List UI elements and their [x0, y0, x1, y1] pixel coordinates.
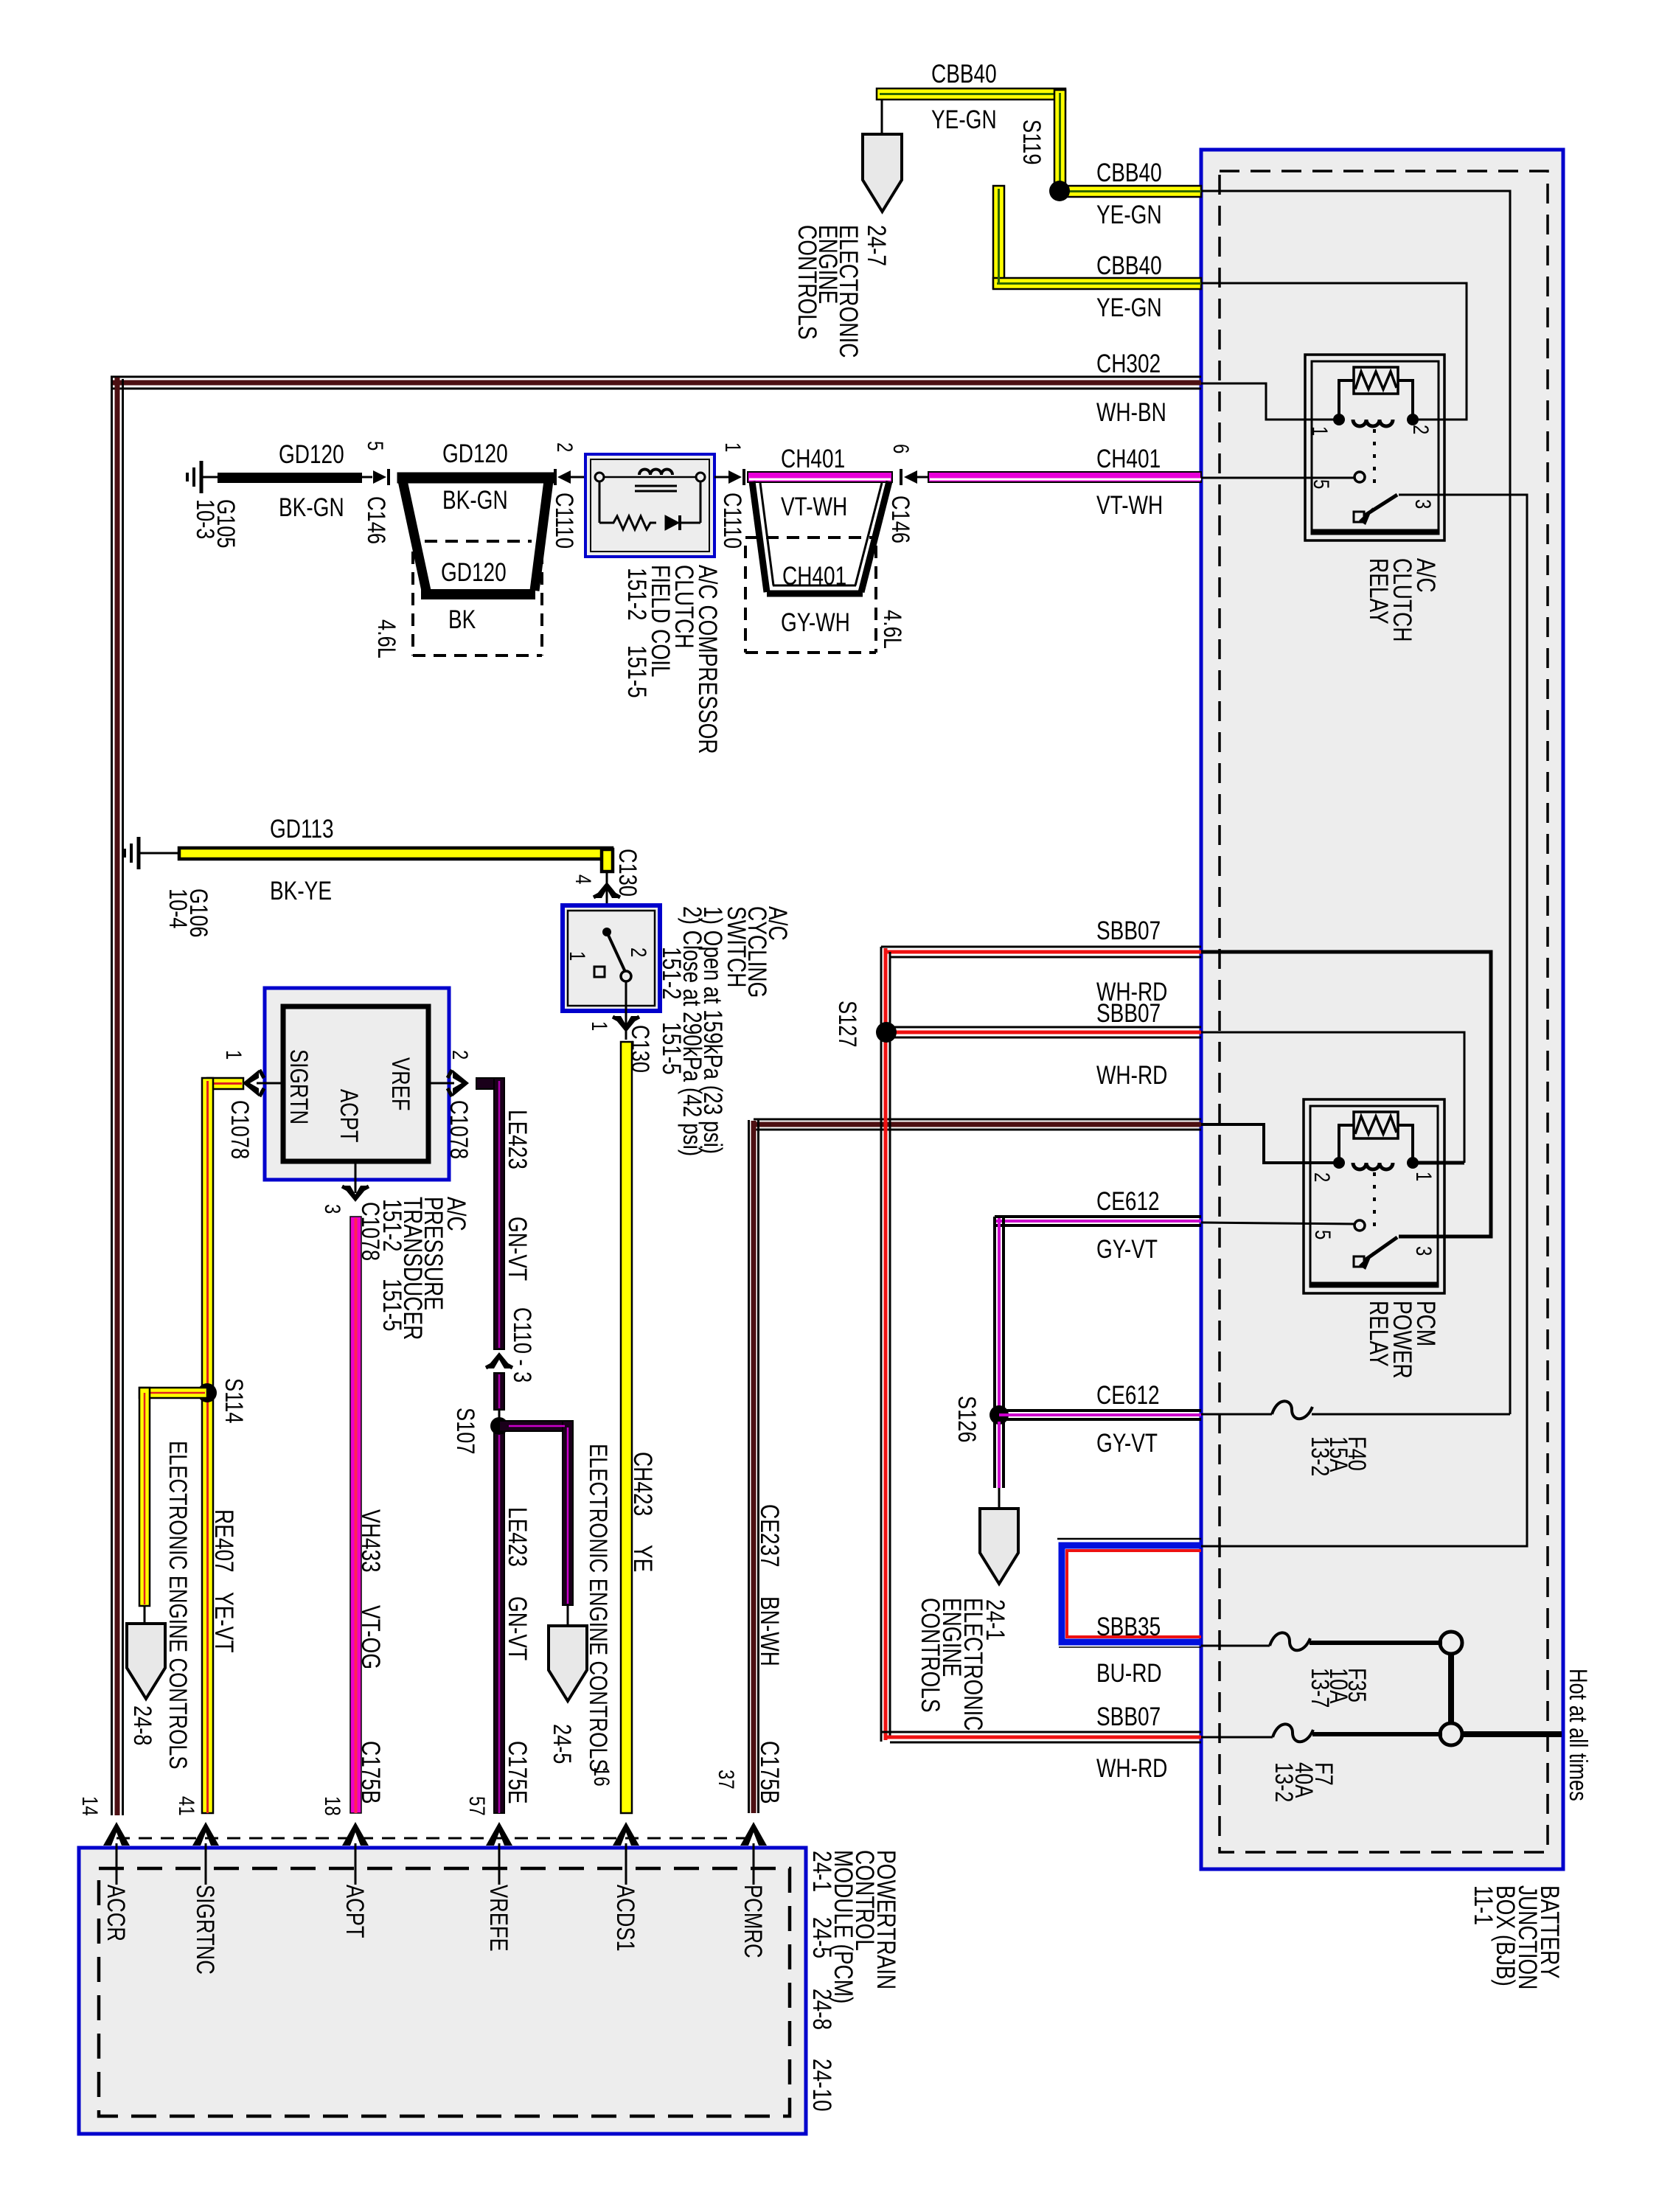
wire VH433 VT-OG vertical — [350, 1217, 361, 1813]
svg-text:CH401: CH401 — [1096, 444, 1161, 473]
transducer pin 1 lead — [257, 1082, 283, 1085]
PCM pin 14 arrow — [103, 1822, 130, 1885]
svg-text:CONTROLS: CONTROLS — [916, 1598, 945, 1713]
svg-text:C110 - 3: C110 - 3 — [508, 1307, 537, 1382]
svg-text:151-2: 151-2 — [378, 1199, 407, 1252]
wire SBB07 WH-RD second (S127 to BJB) — [886, 1027, 1201, 1037]
connector C1110 pin 2 arrow — [555, 469, 585, 485]
svg-text:5: 5 — [1310, 1230, 1335, 1239]
A/C relay actuator dotted line — [1373, 429, 1376, 487]
svg-text:24-7: 24-7 — [862, 225, 891, 266]
svg-text:BK-GN: BK-GN — [442, 485, 508, 515]
battery junction box (BJB) outline — [1201, 150, 1563, 1869]
svg-text:ACPT: ACPT — [341, 1885, 369, 1938]
fuse F40 15A — [1272, 1401, 1312, 1419]
BJB internal line: CE237 step to PCM relay pin 2 — [1201, 1124, 1339, 1163]
svg-text:CBB40: CBB40 — [1096, 251, 1162, 280]
svg-text:CE237: CE237 — [755, 1504, 785, 1568]
svg-text:SBB07: SBB07 — [1096, 998, 1161, 1028]
svg-text:3: 3 — [320, 1204, 345, 1214]
svg-text:VH433: VH433 — [356, 1509, 386, 1573]
splice S127 — [876, 1022, 897, 1043]
svg-text:2: 2 — [448, 1050, 473, 1060]
svg-text:24-1: 24-1 — [807, 1851, 837, 1892]
transducer pin 2 lead — [428, 1082, 454, 1085]
svg-text:WH-RD: WH-RD — [1096, 1753, 1167, 1783]
lead from switch to C130 pin 1 — [625, 981, 627, 1040]
svg-text:24-10: 24-10 — [807, 2059, 837, 2112]
BJB internal line: CE612 lower to F40 — [1201, 1413, 1272, 1416]
wire CE612 GY-VT lower (S126 to BJB / F40) — [999, 1411, 1201, 1419]
svg-text:C130: C130 — [613, 849, 642, 897]
svg-text:CE612: CE612 — [1096, 1380, 1160, 1410]
F7 to terminal — [1312, 1732, 1442, 1736]
svg-text:GY-WH: GY-WH — [781, 608, 850, 637]
field coil internals — [595, 470, 705, 531]
svg-text:24-5: 24-5 — [548, 1724, 577, 1764]
svg-text:SBB07: SBB07 — [1096, 1702, 1161, 1731]
svg-text:C175B: C175B — [356, 1741, 386, 1804]
wire CE237 BN-WH horizontal — [754, 1119, 1201, 1130]
BJB internal line: CH302 to A/C relay pin 1 — [1201, 383, 1339, 420]
svg-text:BK-YE: BK-YE — [270, 876, 332, 905]
svg-text:YE-GN: YE-GN — [1096, 200, 1162, 229]
PCM relay pin 2 junction — [1333, 1157, 1345, 1169]
connector C130 pin 4 arrow (up) — [594, 882, 620, 898]
A/C relay switch arm — [1354, 512, 1364, 522]
svg-text:YE-GN: YE-GN — [931, 105, 997, 134]
svg-text:24-8: 24-8 — [807, 1989, 837, 2030]
PCM pin dashed connector line — [116, 1837, 754, 1840]
wire CH401 VT-WH to BJB — [928, 472, 1201, 482]
terminal circle (F35) — [1440, 1632, 1462, 1654]
svg-text:LE423: LE423 — [503, 1507, 532, 1567]
svg-text:VREF: VREF — [386, 1057, 415, 1110]
svg-text:151-5: 151-5 — [378, 1279, 407, 1332]
svg-text:GN-VT: GN-VT — [503, 1596, 532, 1660]
A/C relay pin 5 contact — [1354, 472, 1365, 482]
svg-text:10-3: 10-3 — [191, 499, 220, 539]
wire CBB40 vertical into S119 — [1054, 90, 1065, 191]
svg-text:VT-WH: VT-WH — [1096, 490, 1163, 520]
BJB internal line: SBB07 bottom to F7 — [1201, 1736, 1273, 1739]
svg-text:S107: S107 — [451, 1408, 480, 1454]
ground G106 — [125, 837, 181, 869]
svg-text:1: 1 — [1411, 1172, 1436, 1181]
connector C1078 pin 2 arrow (right) — [453, 1070, 469, 1096]
connector C110-3 arrow (up) on LE423 — [486, 1352, 512, 1368]
4.6L trapezoid splice (GD120 BK) thick — [397, 473, 554, 594]
BJB internal line: SBB07 second to PCM relay pin 1 — [1201, 1032, 1464, 1163]
wire SBB07 WH-RD bottom (to F7) — [881, 1732, 1201, 1742]
svg-text:151-2: 151-2 — [657, 947, 686, 1000]
svg-text:RELAY: RELAY — [1364, 558, 1394, 625]
BJB internal line: SBB35 to F35 — [1201, 1645, 1270, 1647]
svg-text:ELECTRONIC ENGINE CONTROLS: ELECTRONIC ENGINE CONTROLS — [584, 1444, 613, 1773]
svg-text:GD120: GD120 — [441, 557, 507, 587]
PCM relay switch arm — [1354, 1256, 1364, 1267]
svg-text:GD113: GD113 — [270, 814, 334, 844]
svg-text:ACCR: ACCR — [102, 1885, 131, 1941]
A/C cycling switch box — [563, 905, 660, 1011]
svg-text:C175B: C175B — [755, 1741, 785, 1804]
connector C146 pin 6 arrow — [901, 469, 928, 485]
switch fixed contact square — [594, 967, 605, 977]
connector C1110 pin 1 arrow — [714, 469, 744, 485]
fuse F35 10A — [1270, 1632, 1310, 1650]
fuse F7 40A — [1273, 1724, 1313, 1742]
svg-text:ACDS1: ACDS1 — [611, 1885, 640, 1952]
connector C1078 pin 3 arrow (down) — [342, 1186, 369, 1202]
dashed 4.6L box (left trapezoid) — [413, 541, 542, 655]
transducer pin 3 lead — [355, 1161, 357, 1193]
svg-text:SIGRTN: SIGRTN — [285, 1049, 313, 1124]
svg-text:4.6L: 4.6L — [878, 610, 907, 649]
svg-text:GY-VT: GY-VT — [1096, 1428, 1158, 1458]
svg-text:S119: S119 — [1018, 119, 1046, 164]
splice S119 — [1049, 181, 1070, 201]
connector C146 pin 5 arrow — [362, 469, 389, 485]
BJB internal line: CE612 to PCM relay pin 5 — [1201, 1222, 1354, 1224]
wire GD113 BK-YE corner down — [602, 849, 613, 872]
wire CH423 YE vertical — [621, 1042, 632, 1813]
svg-text:C1110: C1110 — [550, 493, 579, 549]
lead to A/C cycling switch pin 4 — [606, 873, 608, 907]
PCM pin 37 arrow — [740, 1822, 767, 1885]
svg-text:5: 5 — [363, 441, 388, 451]
switch contact (pin 4 side) — [602, 928, 611, 936]
wire SBB35 BU-RD u-turn — [1057, 1539, 1201, 1647]
svg-text:CH401: CH401 — [782, 561, 846, 591]
wire RE407 YE-VT from pin 1 — [202, 1078, 243, 1813]
svg-text:PCMRC: PCMRC — [739, 1885, 768, 1958]
svg-text:C1110: C1110 — [718, 493, 747, 549]
svg-text:GD120: GD120 — [279, 439, 344, 469]
svg-text:3: 3 — [1411, 1246, 1436, 1256]
svg-text:5: 5 — [1309, 479, 1334, 489]
svg-text:C175E: C175E — [503, 1741, 532, 1804]
off-page connector 24-5 (pentagon) — [549, 1626, 587, 1701]
svg-text:GN-VT: GN-VT — [503, 1217, 532, 1281]
battery feed jumper between terminals — [1448, 1654, 1454, 1724]
svg-text:YE: YE — [628, 1545, 658, 1572]
svg-text:C1078: C1078 — [226, 1100, 254, 1159]
svg-text:13-7: 13-7 — [1306, 1668, 1335, 1708]
BJB internal line: PCM relay pin 1 feed — [1413, 1161, 1464, 1165]
BJB inner dashed border — [1220, 171, 1548, 1852]
switch arm — [607, 932, 625, 972]
wire CH302 WH-BN horizontal from left corner to BJB — [111, 377, 1201, 389]
wire CBB40 loop from S119 down-left to BJB (lower) — [993, 186, 1201, 289]
svg-text:CBB40: CBB40 — [931, 59, 997, 88]
svg-text:18: 18 — [320, 1796, 345, 1816]
ground G105 — [187, 461, 219, 493]
wire CBB40 YE-GN segment from connector 24-7 to S119 (horizontal top) — [877, 88, 1065, 100]
BJB internal line: SBB07 upper to PCM relay pin 3 — [1201, 952, 1491, 1237]
svg-text:3: 3 — [1411, 499, 1436, 509]
PCM relay coil resistor — [1339, 1112, 1413, 1160]
wire SBB07 WH-RD upper (S127 corner to BJB) — [881, 947, 1201, 957]
PCM inner dashed border — [99, 1868, 790, 2116]
wire CH401 VT-WH over trapezoid — [748, 472, 892, 482]
svg-text:RE407: RE407 — [209, 1509, 239, 1573]
BJB internal line: F40 to CBB40 vertical — [1312, 1413, 1510, 1416]
connector C1078 pin 1 arrow (left) — [243, 1070, 259, 1096]
battery feed to Hot at all times — [1461, 1731, 1562, 1737]
svg-text:CBB40: CBB40 — [1096, 158, 1162, 187]
svg-text:1: 1 — [565, 951, 590, 961]
svg-text:SBB07: SBB07 — [1096, 916, 1161, 945]
A/C relay coil resistor — [1339, 367, 1413, 417]
wire S107 branch to 24-5 connector — [499, 1421, 573, 1605]
svg-text:1: 1 — [720, 442, 745, 452]
lead from CBB40 to 24-7 connector — [881, 100, 883, 134]
svg-text:2: 2 — [552, 442, 577, 452]
svg-text:ELECTRONIC ENGINE CONTROLS: ELECTRONIC ENGINE CONTROLS — [164, 1441, 192, 1770]
svg-text:1: 1 — [221, 1050, 246, 1060]
svg-text:2: 2 — [1408, 425, 1433, 434]
splice S126 — [990, 1405, 1009, 1425]
svg-text:YE-VT: YE-VT — [209, 1592, 239, 1652]
wire CE612 GY-VT upper (from relay pin 5 to corner) — [995, 1217, 1201, 1225]
wire LE423 short segment to S107 — [494, 1373, 504, 1410]
svg-text:VREFE: VREFE — [484, 1885, 513, 1952]
svg-text:RELAY: RELAY — [1364, 1301, 1394, 1367]
powertrain control module (PCM) outline — [79, 1848, 806, 2134]
svg-text:16: 16 — [589, 1767, 614, 1787]
terminal circle (F7) — [1440, 1723, 1462, 1745]
wire LE423 below S107 to PCM pin 57 — [494, 1433, 504, 1813]
A/C clutch relay box — [1305, 355, 1444, 540]
svg-text:CH401: CH401 — [781, 444, 845, 473]
svg-text:57: 57 — [465, 1796, 490, 1816]
svg-text:S126: S126 — [953, 1396, 981, 1442]
svg-text:Hot at all times: Hot at all times — [1564, 1669, 1593, 1801]
PCM relay actuator dotted line — [1373, 1172, 1376, 1230]
svg-text:C146: C146 — [886, 495, 915, 543]
A/C relay coil — [1353, 420, 1393, 426]
A/C relay pin 1 junction — [1333, 414, 1345, 425]
PCM pin 16 arrow — [613, 1822, 639, 1885]
A/C pressure transducer box — [265, 988, 449, 1180]
svg-text:S114: S114 — [220, 1378, 248, 1423]
BJB internal line: CBB40 upper to vertical feed — [1201, 191, 1527, 1546]
svg-text:1: 1 — [587, 1021, 612, 1031]
PCM relay pin 1 junction — [1407, 1157, 1419, 1169]
off-page connector 24-1 (pentagon) — [980, 1509, 1018, 1584]
svg-text:2: 2 — [626, 947, 651, 957]
svg-text:VT-WH: VT-WH — [781, 492, 847, 521]
4.6L trapezoid splice (CH401 GY-WH) double-line — [752, 481, 889, 594]
svg-text:WH-BN: WH-BN — [1096, 397, 1166, 427]
connector C130 pin 1 arrow (down) — [613, 1016, 639, 1032]
wire CBB40 from S119 to BJB (upper) — [1060, 186, 1201, 197]
off-page connector 24-8 (pentagon) — [127, 1624, 165, 1699]
BJB internal line: CBB40 lower to A/C relay pin 2 — [1201, 283, 1467, 420]
A/C relay pin 2 junction — [1407, 414, 1419, 425]
svg-text:151-5: 151-5 — [622, 645, 652, 698]
svg-text:10-4: 10-4 — [164, 888, 192, 928]
splice S107 — [490, 1417, 508, 1435]
svg-text:ACPT: ACPT — [335, 1089, 364, 1143]
svg-text:BK-GN: BK-GN — [279, 493, 344, 522]
wire WH-BN vertical down left side to PCM pin 14 (ACCR) — [112, 376, 123, 1815]
svg-text:1: 1 — [1307, 426, 1332, 436]
wire RE407 branch from S114 to 24-8 connector — [139, 1388, 207, 1606]
svg-text:CONTROLS: CONTROLS — [793, 225, 822, 340]
PCM pin 41 arrow — [192, 1822, 219, 1885]
svg-text:13-2: 13-2 — [1270, 1762, 1298, 1802]
off-page connector 24-7 (pentagon) — [863, 134, 902, 212]
PCM pin 57 arrow — [486, 1822, 512, 1885]
PCM relay pin 5 contact — [1354, 1220, 1365, 1231]
wire CE612 below S126 to 24-1 connector — [995, 1422, 1004, 1488]
wire GD113 BK-YE horizontal — [179, 848, 612, 859]
svg-text:4.6L: 4.6L — [372, 619, 401, 658]
svg-text:S127: S127 — [833, 1001, 862, 1047]
svg-text:37: 37 — [714, 1770, 739, 1790]
wire CE237 BN-WH vertical to PCM pin 37 — [749, 1120, 759, 1813]
PCM power relay box — [1304, 1099, 1444, 1293]
svg-text:24-5: 24-5 — [807, 1917, 837, 1958]
svg-text:CH302: CH302 — [1096, 349, 1161, 378]
svg-text:14: 14 — [77, 1796, 102, 1816]
svg-text:41: 41 — [174, 1796, 199, 1816]
wire CE612 GY-VT vertical down to S126 — [995, 1217, 1004, 1415]
wire GD120 BK-GN (thick black) — [218, 473, 362, 483]
svg-text:VT-OG: VT-OG — [356, 1605, 386, 1669]
BJB internal line: A/C relay pin 3 to SBB35 top — [1201, 495, 1527, 1546]
svg-text:C146: C146 — [362, 496, 391, 544]
wire LE423 GN-VT from pin 2 — [476, 1078, 504, 1349]
svg-text:6: 6 — [888, 444, 914, 453]
svg-text:SBB35: SBB35 — [1096, 1612, 1161, 1641]
svg-text:151-5: 151-5 — [657, 1022, 686, 1075]
splice S114 — [198, 1383, 217, 1402]
F35 to terminal — [1310, 1641, 1442, 1645]
svg-text:GY-VT: GY-VT — [1096, 1234, 1158, 1264]
svg-text:SIGRTNC: SIGRTNC — [191, 1885, 220, 1975]
svg-text:GD120: GD120 — [442, 439, 508, 468]
PCM pin 18 arrow — [342, 1822, 369, 1885]
PCM relay coil — [1353, 1163, 1393, 1169]
svg-text:4: 4 — [571, 874, 596, 884]
svg-text:24-8: 24-8 — [128, 1705, 157, 1745]
svg-text:13-2: 13-2 — [1306, 1436, 1335, 1476]
wire SBB07 WH-RD vertical through S127 — [881, 947, 890, 1742]
svg-text:LE423: LE423 — [503, 1110, 532, 1169]
A/C compressor clutch field coil box — [585, 454, 714, 557]
svg-text:CE612: CE612 — [1096, 1186, 1160, 1216]
svg-text:BN-WH: BN-WH — [755, 1596, 785, 1666]
svg-text:CH423: CH423 — [628, 1452, 658, 1516]
svg-text:2: 2 — [1310, 1172, 1335, 1182]
svg-text:BK: BK — [448, 605, 476, 634]
svg-text:C1078: C1078 — [445, 1100, 473, 1159]
dashed 4.6L box (right trapezoid) — [745, 538, 876, 653]
svg-text:BU-RD: BU-RD — [1096, 1658, 1162, 1688]
svg-text:WH-RD: WH-RD — [1096, 1060, 1167, 1090]
svg-text:11-1: 11-1 — [1469, 1885, 1498, 1925]
switch contact circle (pin 1 side) — [621, 971, 631, 981]
svg-text:YE-GN: YE-GN — [1096, 293, 1162, 322]
svg-text:151-2: 151-2 — [622, 568, 652, 621]
BJB internal line: CH401 to A/C relay pin 5 — [1201, 477, 1354, 479]
